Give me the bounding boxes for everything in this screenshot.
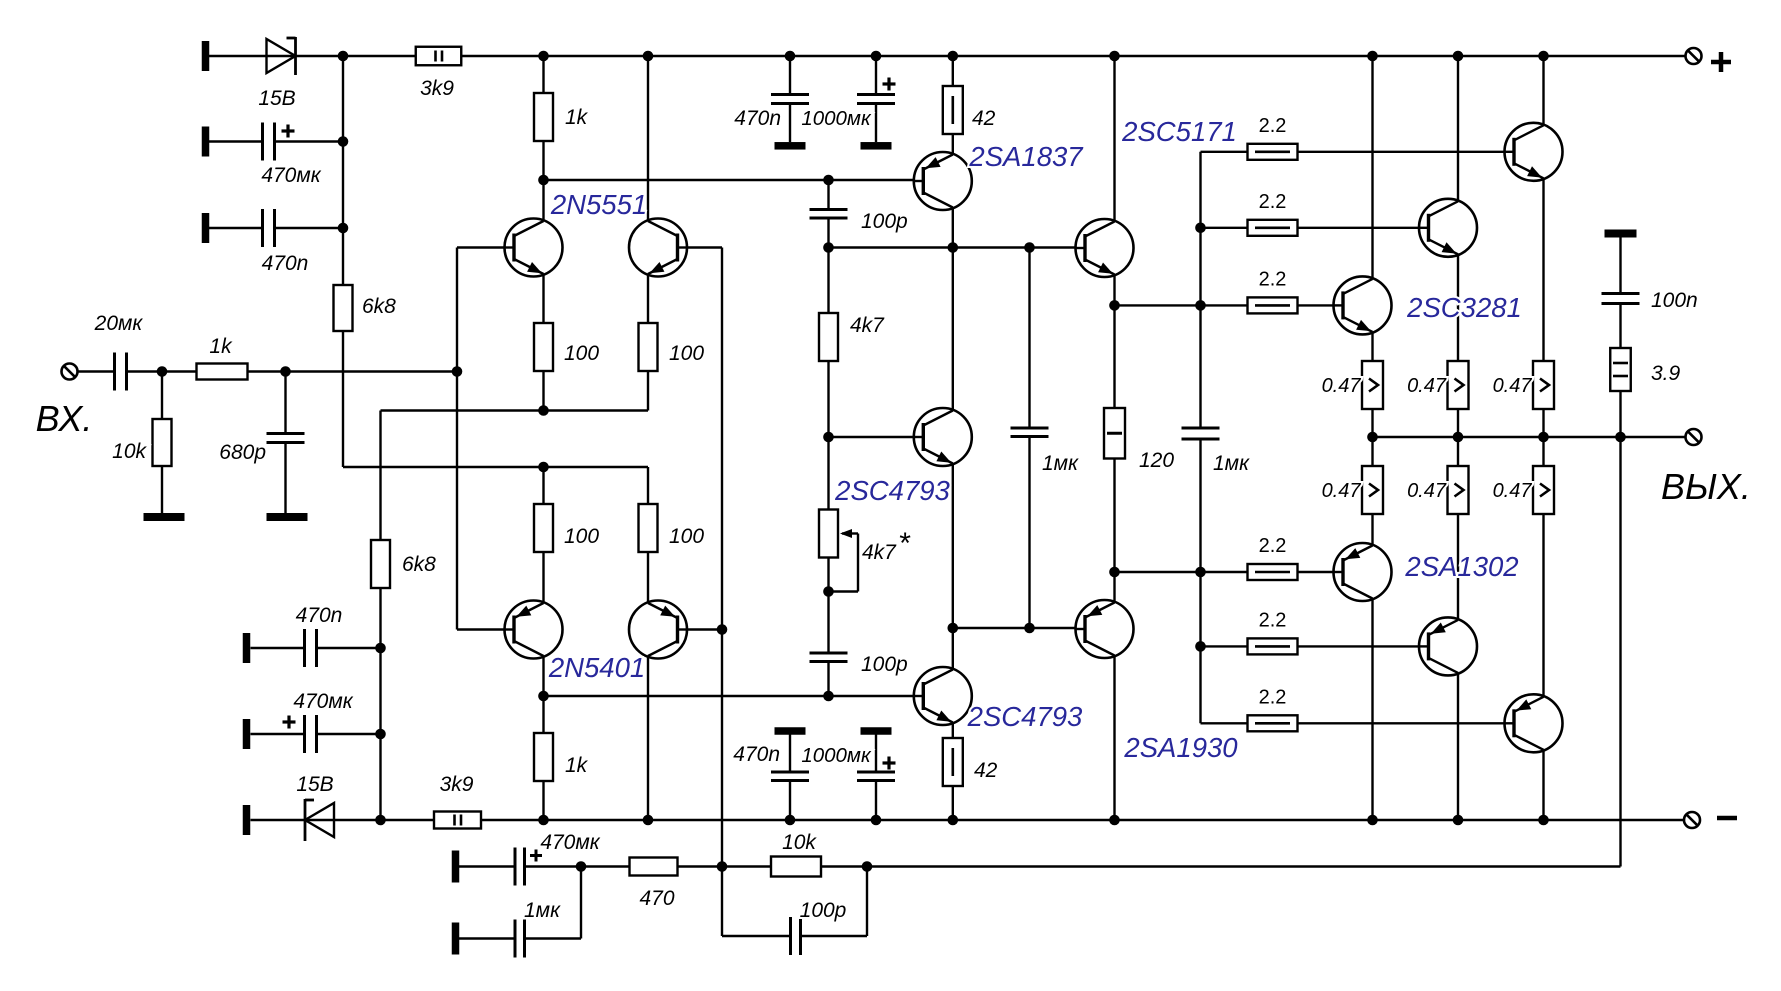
capacitor 1000uk top: [857, 95, 895, 104]
wire P1 emitter: [1371, 514, 1373, 546]
wire 1000uk2 up: [875, 781, 877, 821]
svg-text:1мк: 1мк: [1213, 452, 1250, 475]
wire upper tail drop: [379, 411, 381, 541]
junction 2: [538, 51, 549, 62]
capacitor 1uk feedback: [515, 920, 525, 958]
svg-text:0.47: 0.47: [1322, 480, 1362, 502]
junction 5: [871, 51, 882, 62]
minus sign supply: [1717, 816, 1737, 821]
wire emitter Q2 down: [647, 274, 649, 323]
wire 470uk fb row: [459, 865, 515, 867]
wire emitter Q1 down: [542, 274, 544, 323]
svg-text:20мк: 20мк: [94, 312, 144, 335]
wire 2SA1930 emitter: [1113, 572, 1115, 603]
wire pot top: [827, 437, 829, 510]
resistor 0.47 lower 1: [1362, 466, 1383, 514]
transistor Q1 2N5551 left: [504, 219, 563, 277]
junction 54: [1615, 432, 1626, 443]
plus 1000uk top: [883, 78, 896, 91]
wire O1 emitter: [1371, 332, 1373, 361]
ground 1000uk top: [861, 142, 892, 150]
wire 1000uk2 gnd: [875, 735, 877, 773]
svg-text:3k9: 3k9: [440, 773, 474, 796]
svg-text:0.47: 0.47: [1407, 375, 1447, 397]
wire emitter Q4 up: [647, 552, 649, 603]
ground bar 470uk2: [243, 719, 251, 749]
plus sign supply: [1711, 52, 1731, 72]
capacitor 470n bottom mid: [771, 772, 809, 781]
wire 100p1 bottom: [827, 218, 829, 248]
wire 680p to ground: [284, 443, 286, 513]
junction 10: [1538, 51, 1549, 62]
wire O1 collector: [1371, 56, 1373, 279]
wire 100n top: [1619, 238, 1621, 294]
svg-text:1мк: 1мк: [524, 899, 561, 922]
wire P2 collector: [1457, 673, 1459, 820]
capacitor 100p lower: [810, 653, 848, 662]
plus 470uk top-left: [282, 125, 295, 138]
ground bar 470n2: [243, 633, 251, 663]
svg-text:2N5401: 2N5401: [548, 652, 645, 683]
wire 1uk1 bottom: [1028, 437, 1030, 629]
junction 14: [280, 366, 291, 377]
resistor 1k upper: [534, 93, 553, 141]
ground bar 470uk fb: [452, 851, 460, 883]
wire 680p drop: [284, 372, 286, 434]
wire 100n to 3.9: [1619, 304, 1621, 349]
junction 25: [1024, 242, 1035, 253]
capacitor 100n: [1602, 294, 1640, 304]
wire 470 to fb tap: [678, 865, 722, 867]
svg-text:1k: 1k: [209, 335, 233, 358]
resistor 6k8 top: [334, 285, 353, 331]
transistor 2SC3281 mid: [1418, 199, 1477, 257]
transistor 2SC3281 top: [1504, 123, 1563, 181]
wire 6k8 top to lower tail rail: [342, 331, 344, 467]
terminal minus: [1684, 812, 1700, 828]
junction 32: [717, 624, 728, 635]
transistor 2SC3281 bottom: [1333, 276, 1392, 334]
svg-text:100p: 100p: [861, 210, 908, 233]
svg-text:2SC5171: 2SC5171: [1121, 116, 1237, 147]
junction 35: [785, 815, 796, 826]
resistor 10k input: [153, 419, 172, 466]
wire upper emitter rail: [381, 409, 649, 411]
svg-text:4k7: 4k7: [850, 314, 885, 337]
potentiometer 4k7 preset: [819, 510, 852, 558]
terminal plus: [1686, 48, 1702, 64]
transistor 2SA1302 mid: [1418, 617, 1477, 675]
junction 43: [1195, 223, 1206, 234]
resistor 2.2 row4: [1248, 564, 1298, 580]
wire feedback run: [867, 865, 1621, 867]
resistor 3k9 top: [416, 47, 462, 66]
wire feedback column: [721, 248, 723, 867]
capacitor 470n tail: [305, 629, 317, 667]
svg-text:470n: 470n: [296, 604, 343, 627]
junction 13: [157, 366, 168, 377]
ground 470n top mid: [775, 142, 806, 150]
wire 2SC4793l collector: [952, 628, 954, 670]
capacitor 470uk top-left: [263, 123, 275, 161]
wire driver node to 120: [1113, 305, 1115, 408]
wire 1uk fb join: [525, 937, 582, 939]
junction 45: [1109, 567, 1120, 578]
wire 100 LL top: [542, 467, 544, 504]
svg-text:2.2: 2.2: [1259, 191, 1287, 213]
svg-text:6k8: 6k8: [402, 553, 436, 576]
junction 50: [862, 861, 873, 872]
svg-text:2SC4793: 2SC4793: [967, 701, 1083, 732]
resistor 100 LL: [534, 504, 553, 552]
junction 31: [538, 691, 549, 702]
svg-text:100p: 100p: [800, 899, 847, 922]
wire 470n3 up: [789, 781, 791, 821]
junction 9: [1453, 51, 1464, 62]
svg-text:470мк: 470мк: [261, 164, 321, 187]
wire input to cap: [78, 370, 115, 372]
junction 22: [375, 815, 386, 826]
wire base 2N5401 left: [457, 628, 514, 630]
resistor 42 top: [943, 86, 963, 134]
wire 42b to rail: [952, 786, 954, 820]
junction 51: [1367, 432, 1378, 443]
resistor 3.9: [1610, 348, 1631, 391]
resistor 4k7: [819, 313, 838, 361]
wire 470n2 row b: [317, 647, 381, 649]
junction 27: [823, 586, 834, 597]
ground 680p: [267, 513, 308, 521]
wire 22 bus bottom: [1199, 439, 1201, 723]
svg-text:470: 470: [639, 887, 674, 910]
svg-text:ВЫХ.: ВЫХ.: [1661, 466, 1751, 507]
wire 100 LR top: [647, 467, 649, 504]
capacitor 470uk tail: [305, 715, 317, 753]
junction 26: [823, 432, 834, 443]
svg-text:0.47: 0.47: [1407, 480, 1447, 502]
junction 8: [1367, 51, 1378, 62]
ground 10k: [144, 513, 185, 521]
svg-text:100: 100: [564, 342, 599, 365]
wire feedback drop: [1619, 437, 1621, 867]
wire 2SC5171 emitter: [1113, 275, 1115, 306]
junction 24: [948, 242, 959, 253]
svg-text:0.47: 0.47: [1493, 375, 1533, 397]
transistor 2SA1930: [1075, 600, 1134, 658]
wire 680p node to bases node: [286, 370, 458, 372]
svg-text:0.47: 0.47: [1322, 375, 1362, 397]
svg-text:2.2: 2.2: [1259, 686, 1287, 708]
wire P1 top: [1371, 437, 1373, 466]
wire wiper v: [857, 534, 859, 592]
svg-text:2SA1930: 2SA1930: [1123, 732, 1238, 763]
junction 48: [576, 861, 587, 872]
plus 470uk fb: [530, 850, 542, 862]
wire O2 emitter: [1457, 255, 1459, 362]
wire base column left pair: [456, 248, 458, 630]
junction 44: [1195, 300, 1206, 311]
svg-text:470n: 470n: [733, 743, 780, 766]
svg-text:1k: 1k: [565, 106, 589, 129]
junction 6: [948, 51, 959, 62]
wire 2SA1837 collector: [952, 208, 954, 248]
wire O1 to out rail: [1371, 409, 1373, 437]
ground bar 470uk top: [202, 127, 210, 157]
wire 10k drop: [161, 372, 163, 420]
wire VAS node 247: [829, 246, 1086, 248]
plus 1000uk bottom: [883, 757, 896, 770]
junction 20: [375, 643, 386, 654]
wire 470n1t down: [789, 56, 791, 95]
transistor Q4 2N5401 right: [629, 601, 688, 659]
wire 10k to ground: [161, 466, 163, 513]
svg-text:2SC3281: 2SC3281: [1406, 292, 1522, 323]
svg-text:15В: 15В: [258, 87, 295, 110]
resistor 0.47 upper 1: [1362, 361, 1383, 409]
wire lower tail rail: [343, 466, 648, 468]
svg-text:10k: 10k: [112, 440, 147, 463]
junction 23: [823, 242, 834, 253]
junction 33: [538, 815, 549, 826]
resistor 10k feedback: [771, 857, 821, 877]
wire P3 collector: [1542, 750, 1544, 820]
junction 11: [338, 136, 349, 147]
svg-text:100: 100: [564, 525, 599, 548]
junction 46: [1195, 567, 1206, 578]
transistor 2SC4793 lower: [913, 667, 972, 725]
capacitor 1uk left: [1011, 428, 1049, 437]
wire collector Q4 down: [647, 656, 649, 820]
junction 7: [1109, 51, 1120, 62]
wire P2 top: [1457, 437, 1459, 466]
svg-text:100n: 100n: [1651, 289, 1698, 312]
junction 38: [1109, 815, 1120, 826]
svg-text:1000мк: 1000мк: [801, 107, 872, 130]
svg-text:2SA1837: 2SA1837: [968, 141, 1084, 172]
wire O3 emitter: [1542, 179, 1544, 362]
wire 470uk2 row: [251, 733, 305, 735]
resistor 100 LR: [639, 504, 658, 552]
wire 100 UL to emitter rail: [542, 371, 544, 411]
svg-text:2.2: 2.2: [1259, 268, 1287, 290]
wire top positive rail: [209, 55, 1686, 57]
wire 100p3 left drop: [721, 867, 723, 937]
svg-text:*: *: [898, 527, 911, 560]
wire 2SC4793u base: [829, 436, 924, 438]
resistor 1k lower: [534, 733, 553, 781]
svg-text:0.47: 0.47: [1493, 480, 1533, 502]
ground bar zener bottom: [243, 805, 251, 835]
wire emitter Q3 up: [542, 552, 544, 603]
wire O3 collector: [1542, 56, 1544, 126]
plus 470uk tail: [283, 716, 296, 729]
wire 2SA1930 collector: [1113, 656, 1115, 821]
wire 2SC4793u emitter: [952, 464, 954, 629]
junction 37: [948, 815, 959, 826]
transistor Q2 2N5551 right: [629, 219, 688, 277]
wire 470uk2 row b: [317, 733, 381, 735]
wire 1k to collector node: [542, 141, 544, 180]
resistor 0.47 upper 3: [1533, 361, 1554, 409]
svg-text:3.9: 3.9: [1651, 362, 1681, 385]
wire pot node down: [827, 592, 829, 654]
svg-text:10k: 10k: [782, 831, 817, 854]
wire wiper h: [842, 532, 858, 534]
wire P3 emitter: [1542, 514, 1544, 698]
wire row5: [1201, 645, 1429, 647]
wire collector Q3 down: [542, 656, 544, 733]
resistor 2.2 row5: [1248, 638, 1298, 654]
wire VAS node 628: [953, 627, 1085, 629]
wire O2 collector: [1457, 56, 1459, 202]
capacitor 680p: [267, 434, 305, 443]
junction 19: [538, 462, 549, 473]
junction 15: [452, 366, 463, 377]
wire 4k7 bottom: [827, 361, 829, 437]
junction 12: [338, 223, 349, 234]
junction 4: [785, 51, 796, 62]
svg-text:120: 120: [1139, 449, 1174, 472]
wire fb node rise: [580, 867, 582, 939]
wire 4k7 top: [827, 248, 829, 314]
wire row6: [1201, 722, 1515, 724]
wire 1uk fb row: [459, 937, 515, 939]
zener D2 15V bottom: [305, 799, 334, 841]
wire bottom negative rail: [251, 819, 1685, 821]
capacitor 1000uk bottom: [857, 772, 895, 781]
wire lower base line: [544, 695, 924, 697]
terminal output: [1686, 429, 1702, 445]
wire wiper join: [829, 590, 859, 592]
wire row1: [1201, 151, 1515, 153]
zener D1 15V: [267, 37, 296, 75]
junction 39: [1367, 815, 1378, 826]
wire 470n1t gnd: [789, 104, 791, 143]
junction 41: [1538, 815, 1549, 826]
junction 1: [338, 51, 349, 62]
svg-text:100: 100: [669, 342, 704, 365]
terminal input: [62, 364, 78, 380]
wire 2SC4793l emitter: [952, 724, 954, 739]
svg-text:100: 100: [669, 525, 704, 548]
resistor 470 feedback: [630, 858, 678, 876]
wire 1k to 680p node: [248, 370, 286, 372]
resistor 0.47 upper 2: [1448, 361, 1469, 409]
resistor 2.2 row1: [1248, 144, 1298, 160]
svg-text:42: 42: [974, 759, 998, 782]
junction 28: [823, 691, 834, 702]
resistor 100 UL: [534, 323, 553, 371]
svg-text:2SA1302: 2SA1302: [1404, 551, 1518, 582]
wire cap to 1k: [127, 370, 197, 372]
junction 47: [1195, 641, 1206, 652]
svg-text:ВХ.: ВХ.: [36, 398, 93, 439]
junction 36: [871, 815, 882, 826]
transistor 2SC5171: [1075, 219, 1134, 277]
wire 470n2 row: [251, 647, 305, 649]
junction 52: [1453, 432, 1464, 443]
wire base 2N5551 right: [677, 246, 722, 248]
svg-text:6k8: 6k8: [362, 295, 396, 318]
resistor 0.47 lower 2: [1448, 466, 1469, 514]
transistor Q3 2N5401 left: [504, 601, 563, 659]
wire 1000uk1 down: [875, 56, 877, 95]
capacitor 1uk right: [1182, 428, 1220, 439]
wire 120 to lower node: [1113, 459, 1115, 573]
resistor 1k input: [197, 364, 248, 380]
wire 3.9 to out rail: [1619, 391, 1621, 437]
resistor 2.2 row2: [1248, 220, 1298, 236]
wire fb tap to 10k: [722, 865, 771, 867]
svg-text:15В: 15В: [296, 773, 333, 796]
svg-text:470мк: 470мк: [293, 690, 353, 713]
resistor 2.2 row3: [1248, 297, 1298, 313]
wire 100p2 bottom: [827, 662, 829, 697]
junction 18: [538, 405, 549, 416]
svg-text:470мк: 470мк: [540, 831, 600, 854]
wire 10k to fb out: [821, 865, 867, 867]
svg-text:1000мк: 1000мк: [801, 744, 872, 767]
wire P2 emitter: [1457, 514, 1459, 622]
svg-text:2.2: 2.2: [1259, 609, 1287, 631]
ground bar 470n top: [202, 213, 210, 243]
wire 2SA1837 emitter: [952, 133, 954, 155]
ground 1000uk bottom: [861, 727, 892, 735]
wire 1k collector node to VAS: [544, 179, 829, 181]
svg-text:2.2: 2.2: [1259, 115, 1287, 137]
wire 100p1 to node: [827, 180, 829, 210]
resistor 6k8 bottom: [371, 540, 390, 588]
wire 6k8 bottom to caps: [379, 588, 381, 820]
resistor 2.2 row6: [1248, 715, 1298, 731]
wire pot bottom: [827, 558, 829, 592]
wire 470n top row: [209, 227, 263, 229]
wire 100 UR to emitter rail: [647, 371, 649, 411]
wire 2SC4793u collector: [952, 248, 954, 411]
wire VAS base 2SA1837: [829, 179, 924, 181]
capacitor 20uk input: [115, 353, 127, 391]
junction 30: [1024, 623, 1035, 634]
svg-text:680p: 680p: [219, 441, 266, 464]
wire P3 top: [1542, 437, 1544, 466]
wire row4: [1115, 571, 1344, 573]
wire fb node a: [525, 865, 631, 867]
wire 470n top row b: [275, 227, 344, 229]
wire base 2N5401 right: [677, 628, 722, 630]
wire row2: [1201, 227, 1429, 229]
wire zener node to 6k8 top: [342, 56, 344, 285]
wire 22 bus top: [1199, 152, 1201, 428]
junction 3: [643, 51, 654, 62]
wire 470uk top row b: [275, 140, 344, 142]
transistor 2SA1302 bottom: [1504, 694, 1563, 752]
wire 470n3 gnd: [789, 735, 791, 773]
wire base 2N5551 left: [457, 246, 514, 248]
wire 470uk top row: [209, 140, 263, 142]
capacitor 470n top mid: [771, 95, 809, 104]
ground 470n bottom mid: [775, 727, 806, 735]
svg-text:4k7: 4k7: [862, 541, 897, 564]
wire 1k top feed: [542, 56, 544, 93]
junction 49: [717, 861, 728, 872]
ground bar 1uk fb: [452, 923, 460, 955]
svg-text:2.2: 2.2: [1259, 535, 1287, 557]
svg-text:470n: 470n: [262, 252, 309, 275]
wire collector Q1 up: [542, 180, 544, 221]
transistor 2SA1302 top: [1333, 543, 1392, 601]
svg-text:1k: 1k: [565, 754, 589, 777]
resistor 100 UR: [639, 323, 658, 371]
